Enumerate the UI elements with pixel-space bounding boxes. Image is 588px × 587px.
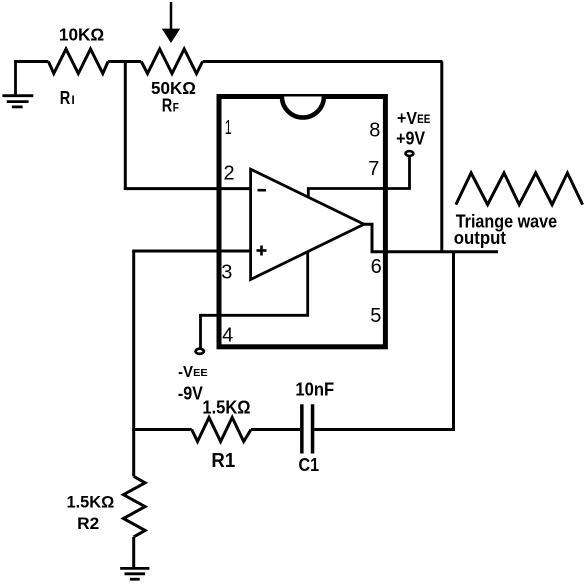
svg-text:EE: EE <box>417 114 431 126</box>
wire RI to RF <box>108 60 141 63</box>
svg-text:1.5KΩ: 1.5KΩ <box>67 493 115 512</box>
+VEE terminal circle <box>406 151 414 156</box>
svg-text:5: 5 <box>370 305 381 327</box>
ground GND2 (bottom) <box>120 568 149 579</box>
resistor R2 <box>123 476 145 537</box>
wire pin2 inverting input <box>124 187 251 190</box>
wire RF to top-right corner <box>203 60 443 63</box>
svg-text:-9V: -9V <box>178 383 203 403</box>
node A junction vertical (RI/RF to pin2) <box>124 62 127 191</box>
svg-text:output: output <box>454 228 506 248</box>
IC notch <box>282 97 324 118</box>
svg-text:8: 8 <box>369 120 380 142</box>
potentiometer RF arrow <box>162 2 180 43</box>
wire junction down to R2 <box>132 430 135 477</box>
svg-text:50KΩ: 50KΩ <box>151 78 196 98</box>
wire C1 to right vertical <box>314 428 455 431</box>
wire R1 to C1 <box>251 428 300 431</box>
op-amp triangle <box>251 169 364 279</box>
capacitor C1 <box>302 404 313 453</box>
svg-text:4: 4 <box>222 324 233 346</box>
wire feedback right vertical <box>440 62 443 254</box>
svg-text:10nF: 10nF <box>295 379 334 399</box>
svg-text:R1: R1 <box>211 450 235 472</box>
resistor R1 <box>192 418 251 442</box>
wire bottom junction to R1 <box>134 428 192 431</box>
triangle wave symbol <box>456 173 583 205</box>
wire R2 to ground <box>132 537 135 568</box>
svg-text:R2: R2 <box>77 514 99 533</box>
wire pin7 from hypotenuse to +VEE terminal <box>308 157 409 197</box>
svg-text:R: R <box>162 94 173 115</box>
svg-text:+9V: +9V <box>396 129 425 149</box>
plus sign <box>257 246 267 256</box>
potentiometer RF zigzag <box>141 49 202 74</box>
resistor RI <box>48 49 108 74</box>
wire output drop vertical <box>452 252 455 431</box>
ground GND1 (top-left) <box>2 62 33 107</box>
op-amp IC box U1 <box>219 97 385 347</box>
svg-text:10KΩ: 10KΩ <box>59 24 104 44</box>
wire pin6 output from apex <box>364 224 498 252</box>
svg-text:7: 7 <box>368 158 379 180</box>
svg-text:1: 1 <box>225 117 232 139</box>
wire pin3 non-inverting input <box>132 250 250 253</box>
wire ground to RI <box>14 60 48 63</box>
svg-text:F: F <box>173 102 179 114</box>
svg-text:1.5KΩ: 1.5KΩ <box>202 398 250 418</box>
svg-text:EE: EE <box>193 368 208 379</box>
svg-text:2: 2 <box>223 163 234 185</box>
wire left vertical pin3 to bottom junction <box>132 251 135 431</box>
svg-text:6: 6 <box>371 256 382 278</box>
-VEE terminal circle <box>196 349 204 354</box>
svg-text:R: R <box>60 87 71 108</box>
svg-text:+V: +V <box>397 108 417 128</box>
svg-text:-V: -V <box>178 364 194 381</box>
svg-text:I: I <box>72 95 75 107</box>
svg-text:3: 3 <box>221 262 232 284</box>
svg-text:C1: C1 <box>299 454 320 475</box>
wire pin4 to -VEE terminal <box>201 252 308 348</box>
minus sign <box>258 189 267 192</box>
